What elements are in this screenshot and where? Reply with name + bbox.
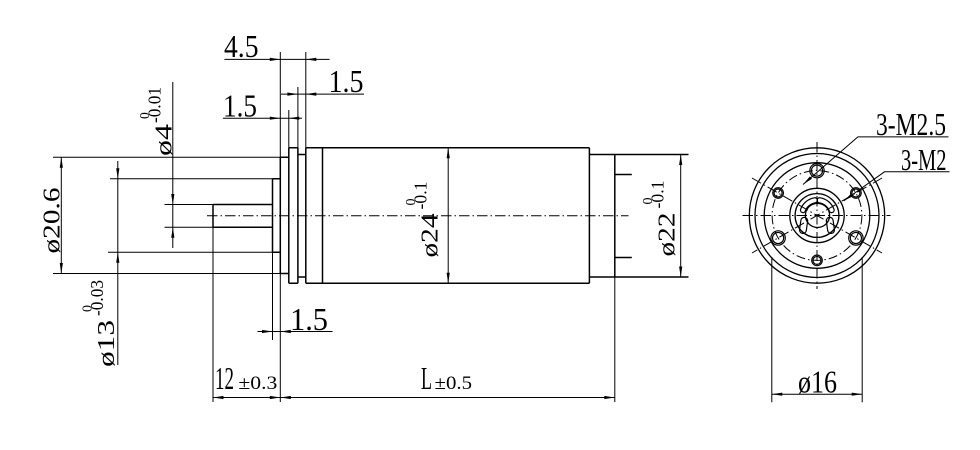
svg-text:ø16: ø16: [798, 365, 837, 400]
svg-text:3-M2: 3-M2: [901, 142, 947, 177]
svg-text:0: 0: [137, 112, 152, 119]
svg-text:L: L: [421, 361, 432, 396]
svg-text:ø20.6: ø20.6: [39, 188, 66, 254]
svg-text:0: 0: [81, 305, 96, 312]
svg-text:4.5: 4.5: [224, 29, 259, 64]
svg-text:ø13: ø13: [93, 320, 120, 367]
svg-text:ø22: ø22: [654, 213, 681, 257]
svg-text:±0.3: ±0.3: [238, 373, 277, 394]
svg-text:3-M2.5: 3-M2.5: [876, 106, 946, 142]
svg-text:ø4: ø4: [151, 124, 178, 156]
svg-text:12: 12: [215, 361, 234, 396]
svg-text:0: 0: [404, 199, 419, 206]
svg-text:ø24: ø24: [417, 214, 444, 258]
svg-text:0: 0: [641, 198, 656, 205]
svg-text:1.5: 1.5: [223, 89, 257, 124]
svg-text:1.5: 1.5: [329, 64, 364, 99]
svg-text:1.5: 1.5: [290, 302, 328, 337]
svg-text:±0.5: ±0.5: [435, 373, 473, 394]
